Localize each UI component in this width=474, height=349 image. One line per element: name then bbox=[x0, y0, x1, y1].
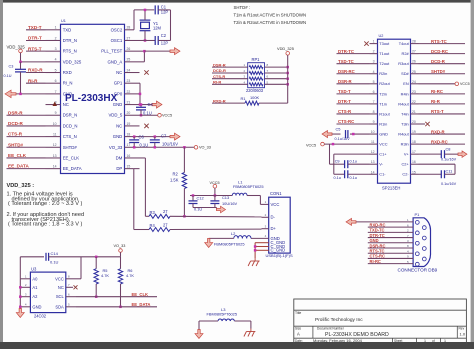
svg-text:0.1u/16V: 0.1u/16V bbox=[441, 158, 457, 162]
svg-text:28: 28 bbox=[127, 26, 131, 30]
svg-text:T1in & R1out ACTIVE in SHUTDOW: T1in & R1out ACTIVE in SHUTDOWN bbox=[234, 13, 307, 18]
svg-text:( Tolerant range : 1.8 ~ 3.3 V: ( Tolerant range : 1.8 ~ 3.3 V ) bbox=[8, 222, 83, 228]
svg-text:C1+: C1+ bbox=[379, 152, 387, 157]
svg-text:17: 17 bbox=[127, 143, 131, 147]
svg-text:RTS_N: RTS_N bbox=[63, 49, 77, 54]
wire net EE_CLK (SCL) bbox=[76, 296, 157, 298]
svg-text:Monday, February 16, 2004: Monday, February 16, 2004 bbox=[313, 338, 363, 343]
svg-text:5: 5 bbox=[55, 68, 57, 72]
U1 right pins bbox=[125, 29, 135, 31]
svg-text:12P: 12P bbox=[161, 41, 169, 46]
svg-text:RXD-R: RXD-R bbox=[213, 98, 226, 103]
ground arrow (U1 pin7 GND) bbox=[16, 93, 46, 95]
svg-text:R4out: R4out bbox=[398, 131, 409, 136]
wire OSC1 row bbox=[140, 39, 156, 41]
ground arrow (PLL_TEST row) bbox=[170, 48, 180, 55]
capacitor C9 0.1u bbox=[329, 144, 331, 164]
svg-text:Sheet: Sheet bbox=[394, 339, 402, 343]
svg-text:R3in: R3in bbox=[401, 142, 409, 147]
ground arrow (U1 pin18) bbox=[170, 133, 180, 140]
svg-text:VDD_325 :: VDD_325 : bbox=[7, 183, 35, 189]
svg-text:21: 21 bbox=[412, 110, 416, 114]
svg-text:2: 2 bbox=[373, 50, 375, 54]
svg-text:D-: D- bbox=[271, 215, 276, 220]
svg-text:1: 1 bbox=[444, 339, 446, 343]
wire net CTS-RC (DB9) bbox=[368, 257, 413, 259]
svg-text:C2-: C2- bbox=[402, 172, 409, 177]
wire U2 V+ row bbox=[419, 153, 442, 155]
resistor-pack RP1 220/0603 bbox=[248, 63, 265, 88]
wire net RXD-RC (U2 pin18) bbox=[419, 143, 466, 145]
svg-text:C4: C4 bbox=[148, 102, 154, 107]
wire PLL_TEST/GND_A tie bbox=[140, 50, 145, 52]
svg-text:23: 23 bbox=[127, 79, 131, 83]
svg-text:220/0603: 220/0603 bbox=[246, 88, 264, 93]
svg-text:V+: V+ bbox=[404, 152, 410, 157]
svg-text:25: 25 bbox=[127, 58, 131, 62]
ground arrow (U2 GND) bbox=[322, 131, 332, 138]
svg-text:4.7K: 4.7K bbox=[126, 273, 134, 278]
wire net CTS-R bbox=[7, 136, 46, 138]
svg-text:R2: R2 bbox=[173, 172, 179, 177]
svg-text:D+: D+ bbox=[271, 226, 277, 231]
svg-text:GND: GND bbox=[379, 131, 388, 136]
svg-text:C2+: C2+ bbox=[401, 162, 409, 167]
svg-text:C5: C5 bbox=[336, 127, 341, 132]
ground arrow (C8) bbox=[458, 151, 467, 158]
svg-text:DCD-R: DCD-R bbox=[213, 68, 226, 73]
wire VCC rail bbox=[190, 195, 232, 197]
svg-text:0.1u: 0.1u bbox=[350, 159, 357, 163]
svg-text:1.5K: 1.5K bbox=[170, 178, 179, 183]
svg-text:R4: R4 bbox=[150, 223, 156, 228]
resistor R3 27 bbox=[149, 214, 170, 218]
svg-text:RXD-R: RXD-R bbox=[431, 129, 446, 134]
svg-text:C9: C9 bbox=[335, 160, 340, 164]
svg-text:RI-RC: RI-RC bbox=[431, 89, 443, 94]
svg-text:18: 18 bbox=[412, 140, 416, 144]
svg-text:24C02: 24C02 bbox=[34, 313, 47, 318]
svg-text:TXD: TXD bbox=[63, 27, 72, 32]
svg-text:T1out: T1out bbox=[379, 51, 390, 56]
svg-text:C7: C7 bbox=[161, 134, 167, 139]
svg-text:4: 4 bbox=[373, 70, 375, 74]
svg-text:0.1u/16V: 0.1u/16V bbox=[335, 137, 351, 141]
window frame left bbox=[0, 0, 3, 349]
svg-text:VDD_325: VDD_325 bbox=[63, 59, 82, 64]
svg-text:CTS-R: CTS-R bbox=[8, 132, 23, 137]
wire net RI-RC (U2 pin23) bbox=[419, 93, 466, 95]
svg-text:13: 13 bbox=[371, 160, 375, 164]
wire net TXD-TC (U2 pin3) bbox=[337, 63, 370, 65]
svg-text:RTS-TC: RTS-TC bbox=[431, 39, 447, 44]
svg-text:3: 3 bbox=[373, 60, 375, 64]
svg-text:VCC: VCC bbox=[55, 276, 64, 281]
svg-text:GND_A: GND_A bbox=[107, 59, 122, 64]
svg-text:7: 7 bbox=[55, 90, 57, 94]
svg-text:of: of bbox=[432, 339, 435, 343]
svg-text:Date:: Date: bbox=[295, 339, 303, 343]
svg-text:26: 26 bbox=[127, 47, 131, 51]
svg-text:EE_DATA: EE_DATA bbox=[132, 302, 151, 307]
svg-text:R3: R3 bbox=[150, 210, 156, 215]
capacitor C10 0.1u bbox=[334, 173, 345, 175]
svg-text:DM: DM bbox=[116, 155, 123, 160]
svg-text:T3out: T3out bbox=[379, 41, 390, 46]
svg-text:EE_CLK: EE_CLK bbox=[8, 153, 27, 158]
svg-text:SCL: SCL bbox=[56, 294, 65, 299]
svg-text:RXD: RXD bbox=[63, 70, 72, 75]
svg-text:R4out: R4out bbox=[398, 101, 409, 106]
wire net RI-RC (DB9) bbox=[368, 263, 413, 265]
svg-text:0.1u: 0.1u bbox=[334, 176, 341, 180]
wire USB shield grounds bbox=[255, 242, 269, 244]
chassis ground (USB shield) bbox=[254, 258, 256, 261]
svg-text:GP0: GP0 bbox=[114, 91, 123, 96]
svg-text:A0: A0 bbox=[32, 276, 38, 281]
svg-text:EE_DATA: EE_DATA bbox=[63, 166, 82, 171]
svg-text:DSR_N: DSR_N bbox=[63, 113, 78, 118]
svg-text:Rev: Rev bbox=[459, 327, 465, 331]
wire net DSR-R (U2 pin5) bbox=[337, 83, 370, 85]
svg-text:DCD-RC: DCD-RC bbox=[431, 49, 448, 54]
svg-text:11: 11 bbox=[53, 133, 57, 137]
svg-text:R2in: R2in bbox=[379, 71, 387, 76]
svg-text:VDD_325: VDD_325 bbox=[7, 44, 26, 49]
svg-text:RXD-RC: RXD-RC bbox=[431, 139, 448, 144]
svg-text:L2: L2 bbox=[231, 231, 236, 236]
capacitor C12 0.1U bbox=[192, 196, 194, 201]
svg-text:C11: C11 bbox=[446, 169, 453, 174]
svg-text:VCC5: VCC5 bbox=[306, 144, 316, 148]
svg-text:R1out: R1out bbox=[379, 111, 390, 116]
capacitor C7 10U/16V bbox=[154, 137, 156, 140]
ground arrow (C12/C13) bbox=[217, 206, 226, 213]
svg-text:RI_N: RI_N bbox=[63, 81, 73, 86]
svg-text:27: 27 bbox=[412, 50, 416, 54]
svg-text:SDA: SDA bbox=[55, 304, 64, 309]
svg-text:U1: U1 bbox=[61, 19, 66, 23]
svg-text:14: 14 bbox=[371, 170, 375, 174]
wire OSC2 to rail bbox=[133, 10, 135, 30]
wire net RXD-RC (DB9) bbox=[368, 226, 413, 228]
svg-text:Size: Size bbox=[295, 327, 301, 331]
wire U2 C1+ row bbox=[334, 153, 370, 155]
wire DM net bbox=[140, 157, 146, 159]
ground arrow (L3 left) bbox=[195, 330, 203, 339]
wire net CTS-R (U2 pin8) bbox=[337, 113, 370, 115]
svg-text:1: 1 bbox=[424, 339, 426, 343]
svg-text:SHTD#: SHTD# bbox=[8, 142, 24, 147]
svg-text:U3: U3 bbox=[31, 266, 37, 271]
svg-text:4: 4 bbox=[55, 58, 57, 62]
svg-text:GND: GND bbox=[63, 91, 73, 96]
svg-text:14: 14 bbox=[53, 165, 57, 169]
svg-text:16: 16 bbox=[412, 160, 416, 164]
capacitor C3 0.1U bbox=[20, 62, 22, 69]
crystal Y1 12M bbox=[140, 19, 151, 21]
svg-text:13: 13 bbox=[53, 154, 57, 158]
svg-text:NC: NC bbox=[116, 70, 122, 75]
connector P1 DB9 bbox=[413, 218, 430, 267]
svg-text:FBM0805PT6025: FBM0805PT6025 bbox=[233, 184, 264, 189]
wire net RI-R bbox=[26, 82, 46, 84]
window frame bottom bbox=[0, 342, 474, 349]
svg-text:C12: C12 bbox=[197, 195, 204, 200]
svg-text:T2out: T2out bbox=[379, 61, 390, 66]
svg-text:9: 9 bbox=[373, 120, 375, 124]
svg-text:Prolific Technology Inc: Prolific Technology Inc bbox=[315, 317, 363, 323]
power VCC5 (U1 pin20) bbox=[140, 114, 158, 116]
no-connect U1 pin8 marker bbox=[53, 102, 58, 107]
svg-text:FBM0805PT6025: FBM0805PT6025 bbox=[214, 242, 245, 247]
svg-text:DTR-T: DTR-T bbox=[338, 99, 351, 104]
svg-text:27: 27 bbox=[163, 222, 168, 227]
svg-text:C14: C14 bbox=[51, 251, 59, 256]
svg-text:GND: GND bbox=[113, 134, 123, 139]
no-connect U1 pin24 bbox=[144, 70, 148, 74]
svg-text:DSR-RC: DSR-RC bbox=[338, 69, 355, 74]
svg-text:1: 1 bbox=[373, 40, 375, 44]
wire net RTS-TC (U2 pin28) bbox=[419, 43, 466, 45]
resistor R5 4.7K bbox=[95, 257, 97, 269]
svg-text:22: 22 bbox=[412, 100, 416, 104]
svg-text:10: 10 bbox=[53, 122, 57, 126]
capacitor C1 12P bbox=[154, 5, 156, 14]
svg-text:VCC5: VCC5 bbox=[162, 114, 172, 118]
wire net DTR-TC (DB9) bbox=[368, 237, 413, 239]
wire net TXD-T (U2 pin6) bbox=[337, 93, 370, 95]
svg-text:RI-R: RI-R bbox=[28, 78, 38, 83]
svg-text:VCC: VCC bbox=[379, 142, 387, 147]
svg-text:VCC: VCC bbox=[271, 202, 280, 207]
wire U1 GND pin18 row bbox=[140, 136, 172, 138]
svg-text:RXD-R: RXD-R bbox=[28, 68, 43, 73]
capacitor C11 0.1u/16V bbox=[419, 173, 442, 175]
svg-text:6: 6 bbox=[373, 90, 375, 94]
svg-text:19: 19 bbox=[412, 130, 416, 134]
wire net DSR-RC (DB9) bbox=[368, 247, 413, 249]
svg-text:1: 1 bbox=[55, 26, 57, 30]
svg-text:C1-: C1- bbox=[379, 172, 386, 177]
wire net EE_DATA (SDA) bbox=[76, 306, 157, 308]
svg-text:DCD_N: DCD_N bbox=[63, 123, 78, 128]
svg-text:CON1: CON1 bbox=[270, 191, 282, 196]
svg-text:VO_33: VO_33 bbox=[114, 244, 126, 248]
svg-text:28: 28 bbox=[412, 40, 416, 44]
svg-text:FBM0805PT6025: FBM0805PT6025 bbox=[207, 311, 238, 316]
svg-text:NC: NC bbox=[116, 123, 122, 128]
inductor L2 FBM bbox=[251, 237, 269, 239]
svg-text:CTS-R: CTS-R bbox=[338, 109, 352, 114]
wire U2 GND pin10 bbox=[331, 133, 341, 135]
connector CON1 USB1(B)-1(F)S bbox=[269, 197, 291, 253]
svg-text:U2: U2 bbox=[379, 34, 384, 38]
svg-text:12M: 12M bbox=[153, 26, 162, 31]
svg-text:22: 22 bbox=[127, 90, 131, 94]
wire net EE_CLK bbox=[7, 157, 46, 159]
wire net DSR-R bbox=[7, 114, 46, 116]
wire net SHTD# (U2 pin25) bbox=[419, 73, 466, 75]
svg-text:RI-R: RI-R bbox=[213, 80, 221, 85]
svg-text:C13: C13 bbox=[222, 195, 229, 200]
svg-text:16: 16 bbox=[127, 154, 131, 158]
svg-text:1.0: 1.0 bbox=[460, 331, 466, 336]
svg-text:27: 27 bbox=[127, 36, 131, 40]
svg-text:CTS-R: CTS-R bbox=[213, 74, 225, 79]
wire net EE_DATA bbox=[7, 168, 46, 170]
ground arrow (U1 GND pin21) bbox=[152, 101, 162, 108]
wire net CTS-RC (U2 pin9) bbox=[337, 123, 370, 125]
svg-text:Document Number: Document Number bbox=[317, 327, 345, 331]
U2 right pins bbox=[411, 43, 419, 45]
svg-text:RI-R: RI-R bbox=[431, 99, 441, 104]
svg-text:PLL_TEST: PLL_TEST bbox=[101, 49, 122, 54]
op IC U1 PL-2303HX body bbox=[61, 24, 125, 173]
svg-text:C8: C8 bbox=[446, 146, 451, 151]
svg-text:11: 11 bbox=[371, 140, 375, 144]
svg-text:6: 6 bbox=[55, 79, 57, 83]
wire net TXD-T bbox=[26, 29, 46, 31]
wire RP1 row DSR-R bbox=[212, 66, 248, 68]
svg-text:VDD_325: VDD_325 bbox=[277, 46, 294, 51]
svg-text:R1: R1 bbox=[241, 96, 246, 101]
wire U2 C2+ row bbox=[419, 163, 456, 165]
svg-text:DP: DP bbox=[116, 166, 122, 171]
svg-text:SHTD# :: SHTD# : bbox=[234, 5, 250, 10]
svg-text:26: 26 bbox=[412, 60, 416, 64]
svg-text:20: 20 bbox=[412, 120, 416, 124]
wire net DCD-R bbox=[7, 125, 46, 127]
svg-text:24: 24 bbox=[412, 80, 416, 84]
svg-text:C6: C6 bbox=[139, 134, 145, 139]
svg-text:T3in: T3in bbox=[401, 121, 409, 126]
svg-text:VO_33: VO_33 bbox=[199, 146, 211, 150]
svg-text:VO_33: VO_33 bbox=[109, 145, 123, 150]
wire net DTR-TC (U2 pin2) bbox=[337, 53, 370, 55]
svg-text:CTS-RC: CTS-RC bbox=[338, 119, 354, 124]
svg-text:NC: NC bbox=[63, 102, 69, 107]
svg-text:DSR-R: DSR-R bbox=[8, 110, 23, 115]
wire net DSR-RC (U2 pin4) bbox=[337, 73, 370, 75]
resistor R6 4.7K bbox=[120, 257, 122, 269]
svg-text:0.1u/16V: 0.1u/16V bbox=[441, 182, 457, 186]
wire net GND (DB9) bbox=[368, 242, 413, 244]
svg-text:RI-RC: RI-RC bbox=[370, 259, 381, 264]
wire net RTS-T bbox=[26, 50, 46, 52]
wire USB D+ stub bbox=[262, 228, 269, 230]
svg-text:VDD_5: VDD_5 bbox=[108, 113, 122, 118]
svg-text:12: 12 bbox=[53, 143, 57, 147]
capacitor C5 0.1u bbox=[345, 130, 347, 138]
U1 left pins bbox=[46, 29, 61, 31]
svg-text:GND: GND bbox=[32, 304, 41, 309]
capacitor C4 0.1U bbox=[140, 105, 142, 107]
svg-text:0.1u: 0.1u bbox=[350, 176, 357, 180]
capacitor C13 10U/16V bbox=[214, 196, 216, 201]
svg-text:TXD-T: TXD-T bbox=[338, 89, 351, 94]
wire net RI-R (U2 pin22) bbox=[419, 103, 466, 105]
svg-text:0.1U: 0.1U bbox=[140, 143, 149, 148]
title block bbox=[294, 299, 467, 344]
svg-text:RTS-T: RTS-T bbox=[28, 46, 42, 51]
svg-text:GND: GND bbox=[113, 102, 123, 107]
svg-text:10U/16V: 10U/16V bbox=[222, 201, 238, 206]
resistor R4 27 bbox=[149, 228, 170, 232]
op IC U3 24C02 EEPROM bbox=[30, 272, 65, 313]
wire net SHTD# bbox=[7, 146, 46, 148]
svg-text:DTR-T: DTR-T bbox=[28, 36, 42, 41]
svg-text:2: 2 bbox=[55, 36, 57, 40]
wire net TXD-TC (DB9) bbox=[368, 231, 413, 233]
svg-text:T2in: T2in bbox=[379, 91, 387, 96]
window frame top bbox=[0, 0, 474, 3]
svg-text:VCC5: VCC5 bbox=[460, 82, 470, 86]
svg-text:25: 25 bbox=[412, 70, 416, 74]
svg-text:23: 23 bbox=[412, 90, 416, 94]
svg-text:EE_CLK: EE_CLK bbox=[132, 292, 149, 297]
svg-text:10U/16V: 10U/16V bbox=[162, 141, 178, 146]
capacitor C6 0.1U bbox=[133, 137, 135, 140]
svg-text:RTS-T: RTS-T bbox=[431, 109, 444, 114]
svg-text:P1: P1 bbox=[415, 212, 421, 217]
svg-text:R2out: R2out bbox=[379, 81, 390, 86]
svg-text:SHTD#: SHTD# bbox=[63, 145, 78, 150]
op IC U2 SP213EH body bbox=[378, 39, 411, 183]
svg-text:DTR-TC: DTR-TC bbox=[338, 49, 354, 54]
svg-text:SP213EH: SP213EH bbox=[382, 186, 400, 191]
wire net DCD-R (U2 pin26) bbox=[419, 63, 466, 65]
wire GP1/GP0/GND tie bbox=[139, 82, 142, 84]
wire net RTS-TC (DB9) bbox=[368, 252, 413, 254]
svg-text:R2#: R2# bbox=[402, 51, 410, 56]
svg-text:GP1: GP1 bbox=[114, 81, 123, 86]
no-connect U1 pin19 bbox=[144, 124, 148, 128]
svg-text:27: 27 bbox=[163, 209, 168, 214]
power VO_33 (U1 pin17 row) bbox=[140, 146, 195, 148]
svg-text:EE_CLK: EE_CLK bbox=[63, 155, 80, 160]
svg-text:C3: C3 bbox=[9, 65, 14, 69]
svg-text:A: A bbox=[297, 331, 300, 336]
svg-text:5: 5 bbox=[373, 80, 375, 84]
svg-text:19: 19 bbox=[127, 122, 131, 126]
svg-text:OSC1: OSC1 bbox=[111, 38, 123, 43]
svg-text:7: 7 bbox=[373, 100, 375, 104]
chassis ground (L3 right) bbox=[250, 329, 252, 332]
svg-text:SHTD#: SHTD# bbox=[431, 69, 446, 74]
svg-text:12: 12 bbox=[371, 150, 375, 154]
wire net RTS-T (U2 pin21) bbox=[419, 113, 466, 115]
no-connect U2 pin1 bbox=[364, 41, 368, 45]
svg-text:R1in: R1in bbox=[379, 121, 387, 126]
svg-text:3: 3 bbox=[55, 47, 57, 51]
svg-text:EE_DATA: EE_DATA bbox=[8, 164, 29, 169]
wire RP1 row RI-R bbox=[212, 83, 248, 85]
wire RP1 row CTS-R bbox=[212, 78, 248, 80]
svg-text:17: 17 bbox=[412, 150, 416, 154]
svg-text:DSR-R: DSR-R bbox=[338, 79, 353, 84]
power VCC5 (U2 EN pin24) bbox=[419, 83, 456, 85]
capacitor C2 12P bbox=[154, 36, 156, 45]
U2 left pins bbox=[370, 43, 378, 45]
svg-text:OSC2: OSC2 bbox=[111, 27, 123, 32]
svg-text:DCD-R: DCD-R bbox=[8, 121, 23, 126]
svg-text:RP1: RP1 bbox=[252, 57, 261, 62]
svg-text:TXD-TC: TXD-TC bbox=[338, 59, 354, 64]
svg-text:100K: 100K bbox=[250, 95, 259, 100]
capacitor C8 0.1u/16V bbox=[440, 150, 442, 158]
svg-text:CONNECTOR DB9: CONNECTOR DB9 bbox=[398, 268, 438, 273]
